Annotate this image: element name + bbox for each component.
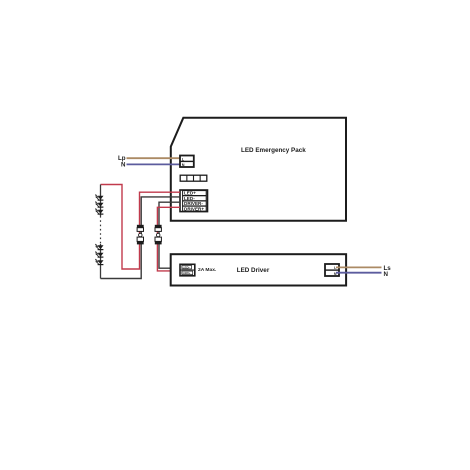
label: 2A Max. (198, 267, 217, 273)
wire LED- (black): TB2 row2 to LED string cathode (101, 197, 181, 279)
terminal row DRIVER+ (183, 206, 207, 211)
wire N to driver (blue) (336, 272, 382, 274)
LED D3 (95, 208, 104, 214)
LED D1 (95, 194, 104, 200)
output terminal block TB2 outer box (180, 190, 208, 212)
wire N neutral input (blue) (127, 163, 182, 165)
wire LED+ (red): TB2 row1 to LED string anode (101, 185, 181, 270)
terminal row LED- (183, 196, 207, 201)
svg-text:LED-: LED- (183, 265, 190, 269)
LED D5 (95, 251, 104, 257)
svg-text:N: N (121, 162, 126, 169)
wire Lp live input (brown) (127, 157, 182, 159)
driver input terminal (L/N) (325, 264, 339, 276)
wire DRIVER+ (red): TB2 row4 to driver output LED+ (157, 207, 181, 271)
svg-text:LED+: LED+ (183, 271, 191, 275)
LED string rail (cathode side, black vertical) (100, 185, 102, 279)
mains input terminal TB1 (L/N) on emergency pack (180, 156, 194, 168)
label Lp (118, 155, 126, 162)
terminal row LED+ (183, 191, 207, 196)
label: LED Driver (237, 267, 270, 274)
LED D2 (95, 201, 104, 207)
dashed wire (LED string continuation) (100, 216, 102, 244)
label N (driver neutral) (384, 271, 389, 278)
svg-text:N: N (384, 271, 389, 278)
LED D4 (95, 244, 104, 250)
driver output terminal (LED- / LED+) (180, 264, 195, 276)
label N (input neutral) (121, 162, 126, 169)
svg-text:DRIVER+: DRIVER+ (184, 206, 204, 211)
terminal row DRIVER- (183, 201, 207, 206)
svg-text:LED Driver: LED Driver (237, 267, 270, 274)
svg-text:N: N (182, 163, 185, 167)
LED D6 (95, 259, 104, 265)
LED Driver enclosure U2 (171, 254, 346, 285)
label Ls (384, 265, 392, 272)
wire DRIVER- (black): TB2 row3 to driver output LED- (159, 202, 181, 268)
inline connector J1 (LED cable) (137, 225, 144, 245)
label: LED Emergency Pack (241, 147, 306, 154)
inline connector J2 (driver cable) (155, 225, 162, 245)
svg-text:2A Max.: 2A Max. (198, 267, 217, 273)
wire Ls switched live (brown) (336, 266, 382, 268)
LED Emergency Pack enclosure U1 (171, 118, 346, 221)
svg-text:LED Emergency Pack: LED Emergency Pack (241, 147, 306, 154)
connector strip 4-way (unused) (180, 175, 207, 181)
